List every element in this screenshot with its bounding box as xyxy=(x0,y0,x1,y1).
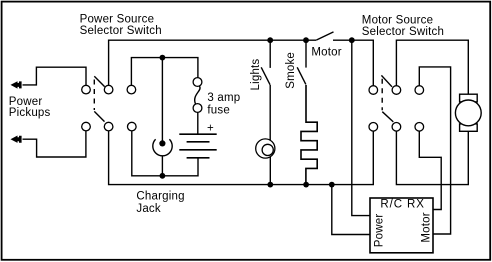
svg-text:R/C RX: R/C RX xyxy=(380,199,424,211)
svg-text:+: + xyxy=(207,123,214,135)
svg-text:Motor: Motor xyxy=(311,47,341,59)
svg-text:Power Source: Power Source xyxy=(80,13,155,25)
svg-text:fuse: fuse xyxy=(207,105,230,117)
svg-text:Lights: Lights xyxy=(250,59,262,91)
svg-text:3 amp: 3 amp xyxy=(207,92,240,104)
svg-text:Pickups: Pickups xyxy=(9,107,51,119)
svg-text:Power: Power xyxy=(373,214,385,248)
svg-text:Selector Switch: Selector Switch xyxy=(362,26,444,38)
svg-text:Jack: Jack xyxy=(136,203,160,215)
svg-text:Charging: Charging xyxy=(136,191,184,203)
svg-text:Selector Switch: Selector Switch xyxy=(80,25,162,37)
svg-text:Motor Source: Motor Source xyxy=(362,14,433,26)
svg-text:Smoke: Smoke xyxy=(285,52,297,89)
svg-text:Motor: Motor xyxy=(420,212,432,242)
